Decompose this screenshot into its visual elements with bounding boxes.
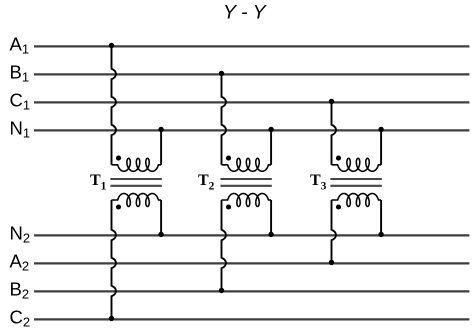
node T1 primary tap on A1 — [109, 43, 114, 48]
T3 primary phasing dot — [336, 156, 341, 161]
wire bus B1 — [34, 73, 469, 75]
wire T3 primary return to N1 — [380, 130, 382, 165]
node T3 primary tap on C1 — [329, 99, 334, 104]
transformer T1 core — [110, 179, 161, 186]
transformer T2 secondary winding — [222, 194, 272, 207]
svg-text:Y - Y: Y - Y — [223, 2, 268, 24]
wire bus N2 — [34, 234, 469, 236]
node T2 primary tap on B1 — [219, 71, 224, 76]
node T2 primary on N1 — [268, 127, 273, 132]
node T3 primary on N1 — [378, 127, 383, 132]
wire bus A1 — [34, 45, 469, 47]
wire bus C1 — [34, 101, 469, 103]
node T3 secondary on A2 — [329, 260, 334, 265]
wire T1 secondary return to N2 — [160, 200, 162, 235]
node T2 secondary on B2 — [219, 288, 224, 293]
wire T1 secondary lead to C2 — [112, 200, 117, 319]
transformer T3 secondary winding — [332, 194, 382, 207]
wire T3 primary feed from C1 — [332, 102, 337, 165]
wire T2 primary return to N1 — [270, 130, 272, 165]
transformer T3 core — [330, 179, 381, 186]
T2 primary phasing dot — [226, 156, 231, 161]
node T1 secondary on N2 — [158, 232, 163, 237]
wire bus B2 — [34, 290, 469, 292]
wire bus C2 — [34, 318, 469, 320]
node T1 secondary on C2 — [109, 316, 114, 321]
wire bus N1 — [34, 129, 469, 131]
wire bus A2 — [34, 262, 469, 264]
wire T2 primary feed from B1 — [222, 74, 227, 165]
wire T2 secondary return to N2 — [270, 200, 272, 235]
wire T2 secondary lead to B2 — [222, 200, 227, 291]
transformer T3 primary winding — [332, 158, 382, 171]
transformer T1 secondary winding — [112, 194, 162, 207]
T1 secondary phasing dot — [116, 204, 121, 209]
transformer T1 primary winding — [112, 158, 162, 171]
node T1 primary on N1 — [158, 127, 163, 132]
T2 secondary phasing dot — [226, 204, 231, 209]
transformer T2 core — [220, 179, 271, 186]
T3 secondary phasing dot — [336, 204, 341, 209]
node T3 secondary on N2 — [378, 232, 383, 237]
wire T1 primary return to N1 — [160, 130, 162, 165]
transformer T2 primary winding — [222, 158, 272, 171]
wire T1 primary feed from A1 — [112, 46, 117, 165]
T1 primary phasing dot — [116, 156, 121, 161]
node T2 secondary on N2 — [268, 232, 273, 237]
wire T3 secondary return to N2 — [380, 200, 382, 235]
wire T3 secondary lead to A2 — [332, 200, 337, 263]
